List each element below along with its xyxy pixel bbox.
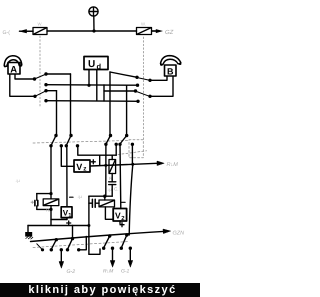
wire drop c5 (105, 144, 107, 196)
mech link dashed bottom (33, 242, 129, 248)
wire drop c6 (115, 144, 117, 155)
breaker W1 (33, 28, 47, 35)
svg-text:V: V (115, 211, 121, 221)
ground chassis (25, 226, 33, 240)
wire resistor top (111, 155, 113, 159)
svg-text:R↓M: R↓M (103, 269, 114, 275)
node g1 top (49, 192, 52, 195)
breaker W2 (137, 28, 152, 35)
wire drop c3 to V1 (66, 146, 68, 207)
capacitor C1 (35, 194, 38, 210)
wire Ud lead1 (88, 70, 90, 86)
label plus Vz (91, 160, 95, 164)
svg-text:↓µ: ↓µ (107, 187, 112, 192)
switch S4d (120, 233, 132, 250)
switch S3d (118, 134, 134, 146)
wire drop x126 (126, 85, 128, 135)
wire s4 link (79, 237, 87, 250)
switch S4b (66, 237, 81, 252)
wire drop x70 (70, 74, 72, 136)
mech link dashed h1 (33, 141, 128, 144)
wire drop c2 to Vz (61, 146, 74, 167)
switch S4a0 stub (37, 244, 44, 252)
switch S1a (33, 72, 48, 86)
svg-text:W.: W. (141, 22, 146, 27)
lamp / plus terminal P1 (89, 7, 98, 16)
wire B t2 (150, 76, 173, 96)
wire ground feed (28, 220, 89, 226)
wire net2 (46, 84, 138, 87)
voltmeter Vz (74, 160, 90, 173)
wire (93, 16, 95, 31)
switch S3b (65, 134, 80, 148)
svg-text:U: U (88, 59, 95, 70)
switch S2a (135, 76, 151, 87)
arrow out RWM (110, 250, 115, 267)
wire net4 (46, 100, 138, 103)
wire drop c1 (50, 146, 52, 199)
caption bar (0, 283, 200, 297)
wire drop x56 (56, 91, 58, 136)
voltmeter Ud (84, 57, 108, 71)
wire drops to bottom bus (72, 226, 74, 239)
voltmeter V1 (61, 207, 72, 219)
arrow out G-1 (128, 250, 133, 267)
wire net6 (104, 90, 136, 92)
trip unit dashed box (129, 140, 143, 158)
wire net3 (46, 90, 57, 92)
label minus V2 (122, 201, 126, 203)
switch S4c (102, 234, 114, 250)
wire V2 bottom (119, 221, 121, 224)
arrow GZN (163, 229, 171, 233)
node Ud1 (87, 84, 90, 87)
node top-bus junction (92, 29, 95, 32)
voltmeter V2 (113, 209, 126, 223)
ammeter B (160, 56, 181, 77)
svg-text:V: V (76, 162, 82, 172)
arrow out G-2 (59, 250, 64, 268)
fuse R1 (43, 199, 59, 206)
wire g1 down (51, 206, 67, 220)
arrow right GZ (152, 30, 157, 32)
wire g2 main (105, 196, 113, 219)
arrow left G-1 (26, 30, 33, 32)
label plus V1 (67, 221, 71, 225)
node rwm junction1 (104, 164, 107, 167)
wire net5 (110, 72, 137, 77)
label plus C1 (31, 201, 34, 204)
wire drop c8 (131, 144, 133, 165)
switch S3a (49, 134, 63, 148)
switch S1b (33, 89, 47, 102)
wire V1 bottom (66, 218, 68, 220)
wire c1 loop top (37, 193, 51, 195)
svg-text:G-(: G-( (3, 30, 11, 36)
label plus V2 (120, 223, 124, 227)
svg-text:↓µ: ↓µ (77, 194, 82, 199)
arrow RWM (157, 161, 164, 165)
ammeter A (4, 56, 22, 76)
svg-text:G-2: G-2 (67, 269, 76, 275)
link dashed right (143, 37, 145, 140)
wire A t2 (10, 74, 35, 96)
capacitor Cb (109, 174, 116, 197)
wire link v104 (103, 85, 105, 101)
svg-text:B: B (167, 67, 174, 77)
mech link dashed h2 (118, 151, 147, 155)
svg-text:C.: C. (114, 187, 119, 192)
link dashed left (39, 36, 41, 107)
wire drop x110 (109, 72, 111, 136)
wire net1 (46, 73, 71, 75)
wire top bus (20, 30, 160, 32)
svg-text:GZ: GZ (165, 29, 174, 36)
node y225 junction (87, 224, 90, 227)
capacitor C2 (89, 199, 99, 207)
fuse R2 (99, 200, 115, 207)
wire drop c7 V2 feed (119, 144, 122, 208)
wire g2 loop (89, 195, 112, 197)
svg-text:↓µ: ↓µ (15, 178, 20, 183)
svg-text:G-1: G-1 (121, 269, 130, 275)
switch S2b (134, 89, 152, 103)
wire c1 bottom (37, 208, 51, 210)
switch S4a (50, 238, 63, 252)
wire A t1 (15, 74, 34, 79)
resistor Rb vertical (109, 160, 116, 174)
node g1 bottom (49, 208, 52, 211)
label minus V1 (70, 196, 73, 198)
wire v129 to bus (129, 164, 133, 235)
svg-text:GZN: GZN (173, 231, 185, 237)
svg-text:W.: W. (38, 22, 43, 27)
wire drop c4 (78, 146, 116, 155)
bottom bus (31, 231, 168, 241)
switch S3c (104, 134, 118, 146)
svg-text:A: A (10, 65, 17, 76)
svg-text:R↓M: R↓M (167, 162, 179, 168)
wire x88 corner (89, 249, 100, 254)
wire h165 RWM line (91, 163, 161, 166)
wire B t1 (150, 76, 167, 80)
wire Ud lead2 (96, 70, 98, 101)
node g2 top (103, 195, 106, 198)
wire c2 long drop (88, 196, 90, 254)
node rwm junction2 (131, 163, 134, 166)
wire v99 (99, 155, 101, 165)
